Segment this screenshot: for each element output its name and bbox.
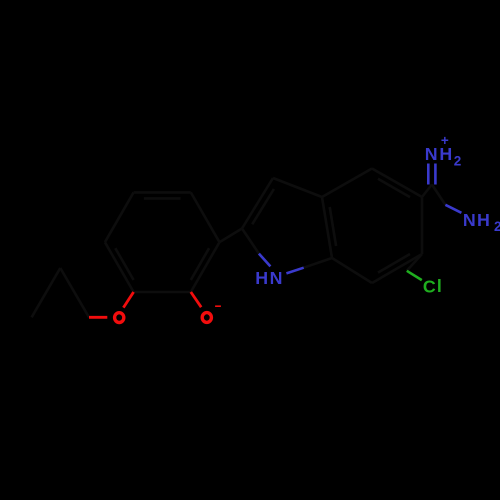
svg-text:N: N [425,144,438,164]
svg-text:H: H [255,268,268,288]
svg-text:C: C [423,276,436,296]
svg-text:+: + [441,133,449,148]
svg-text:2: 2 [454,154,462,169]
svg-text:H: H [477,210,490,230]
svg-text:N: N [463,210,476,230]
svg-text:l: l [437,276,442,296]
svg-text:N: N [270,268,283,288]
svg-text:2: 2 [494,219,500,234]
